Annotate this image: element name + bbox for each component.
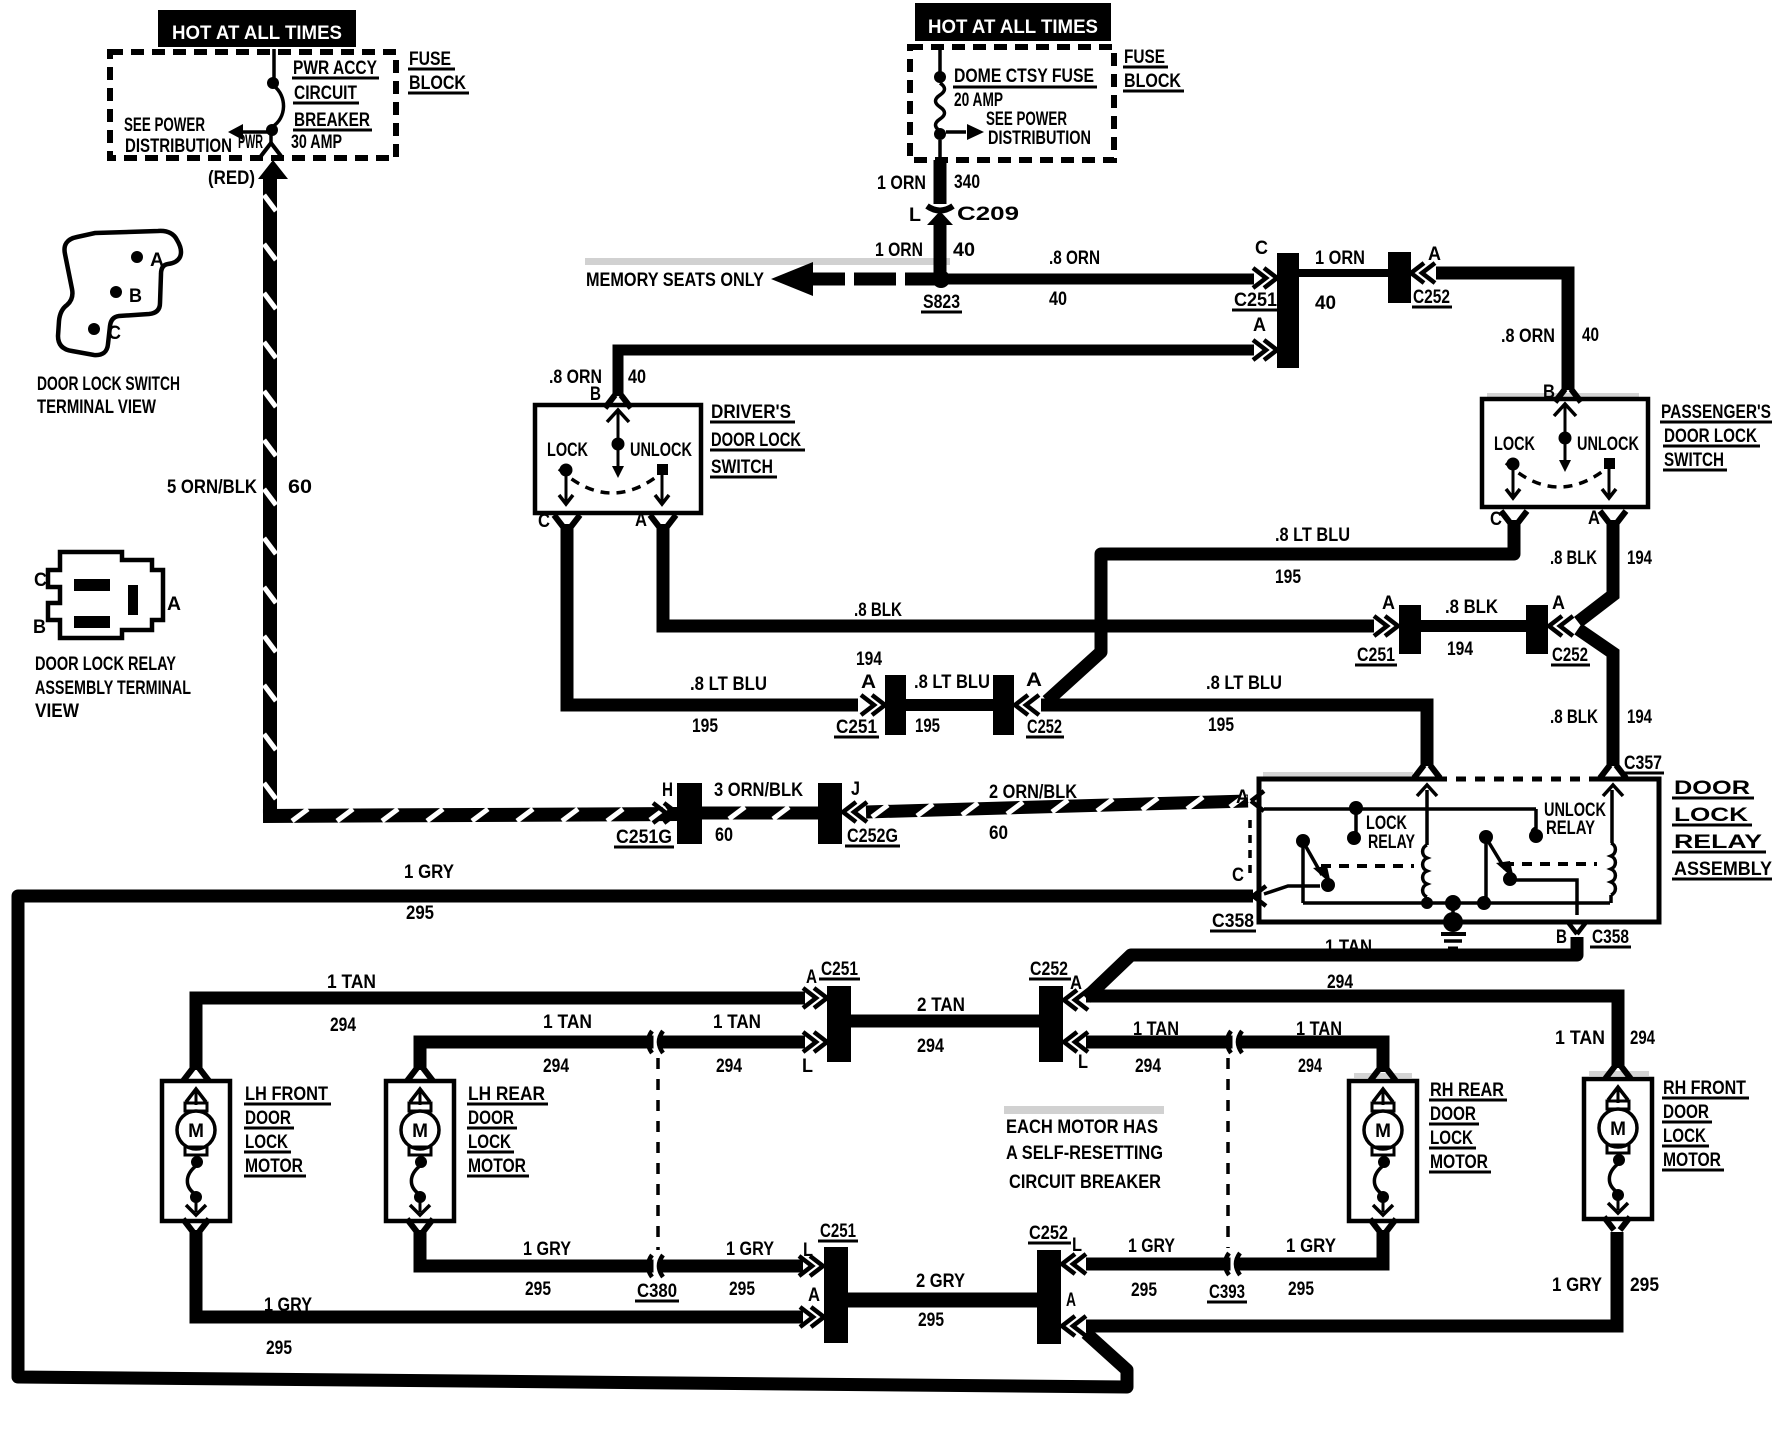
dashed line between RH connectors <box>1226 1058 1230 1248</box>
svg-text:30 AMP: 30 AMP <box>291 132 342 153</box>
svg-text:RELAY: RELAY <box>1546 818 1595 839</box>
dashed line relay A to C <box>1248 820 1252 880</box>
svg-text:SEE POWER: SEE POWER <box>986 109 1067 130</box>
svg-text:A: A <box>1552 593 1565 614</box>
svg-text:.8 BLK: .8 BLK <box>1550 548 1597 569</box>
unlock relay coil <box>1611 843 1615 895</box>
svg-text:1 TAN: 1 TAN <box>1325 937 1372 958</box>
svg-text:C251: C251 <box>1357 645 1395 666</box>
inner chevron below LT BLU terminal <box>1417 785 1437 796</box>
svg-text:RELAY: RELAY <box>1368 832 1415 853</box>
hatch slashes on 2 ORN/BLK <box>872 795 1246 817</box>
wire to SEE POWER arrow <box>242 130 271 134</box>
driver's door lock switch U-switch <box>535 405 701 513</box>
arrow up at (RED) <box>258 160 288 179</box>
terminal flare C357 at relay top <box>1600 765 1626 778</box>
wire 1 GRY C252 A to RH front motor <box>1086 1232 1617 1326</box>
wire .8 LT BLU C251 to C252 <box>906 699 994 711</box>
header HOT AT ALL TIMES (middle) <box>915 3 1111 41</box>
svg-text:DOOR LOCK: DOOR LOCK <box>711 430 801 451</box>
svg-text:LOCK: LOCK <box>1663 1126 1706 1147</box>
connector C251G <box>677 783 702 844</box>
svg-text:.8 ORN: .8 ORN <box>1049 248 1100 269</box>
svg-text:.8 LT BLU: .8 LT BLU <box>1275 525 1350 546</box>
passenger's door lock switch U-switch <box>1482 399 1648 507</box>
LH front door lock motor <box>162 1081 230 1221</box>
terminal flare LH front motor top <box>183 1068 209 1081</box>
unlock relay common dot <box>1529 829 1543 843</box>
svg-text:294: 294 <box>330 1015 356 1036</box>
svg-text:.8 LT BLU: .8 LT BLU <box>690 674 767 695</box>
ground stub <box>1451 903 1455 913</box>
hatch slashes between C251G and C252G <box>729 807 789 819</box>
svg-text:C357: C357 <box>1624 753 1662 774</box>
svg-text:DISTRIBUTION: DISTRIBUTION <box>125 136 232 157</box>
unlock relay feed drop with hook <box>1532 809 1536 834</box>
svg-text:1 TAN: 1 TAN <box>1133 1019 1179 1040</box>
svg-text:RELAY: RELAY <box>1674 832 1762 853</box>
wire 5 ORN/BLK hatched vertical from (RED) <box>263 177 277 810</box>
svg-text:294: 294 <box>543 1056 569 1077</box>
connector C252 (TAN) <box>1039 986 1063 1062</box>
junction dot unlock post <box>1477 896 1491 910</box>
svg-text:MOTOR: MOTOR <box>245 1156 303 1177</box>
terminal arrow into C252 A (LT BLU) <box>1015 695 1039 715</box>
inner feed line C row <box>1264 886 1320 894</box>
terminal flare LH rear motor bottom <box>407 1219 433 1232</box>
svg-text:B: B <box>129 286 142 307</box>
dashed line between LH connectors <box>656 1058 660 1250</box>
arrow MEMORY SEATS ONLY <box>771 262 813 296</box>
wire .8 BLK passenger A down to C252 kink <box>1578 520 1613 622</box>
svg-text:295: 295 <box>729 1279 755 1300</box>
svg-text:RH REAR: RH REAR <box>1430 1080 1504 1101</box>
splice S823 <box>932 270 950 288</box>
svg-text:LOCK: LOCK <box>245 1132 288 1153</box>
svg-text:194: 194 <box>1627 707 1652 728</box>
wire .8 LT BLU passenger C down and left <box>1047 520 1514 701</box>
terminal arrow into C252 A (BLK) <box>1549 616 1573 636</box>
wire 1 GRY LH rear motor to C251 L <box>420 1230 803 1266</box>
svg-text:195: 195 <box>1275 567 1301 588</box>
svg-text:C251: C251 <box>820 1221 856 1242</box>
circuit breaker contact dot bottom <box>266 124 278 136</box>
terminal arrow into C251 A (GRY) <box>800 1307 824 1327</box>
svg-text:L: L <box>803 1240 813 1261</box>
connector C251 (BLK) <box>1399 605 1421 654</box>
svg-text:BLOCK: BLOCK <box>409 73 466 94</box>
svg-text:LOCK: LOCK <box>1674 805 1748 826</box>
terminal arrow into C252G J <box>843 802 867 822</box>
svg-text:C251G: C251G <box>616 827 672 848</box>
svg-text:DOOR: DOOR <box>245 1108 291 1129</box>
svg-text:ASSEMBLY TERMINAL: ASSEMBLY TERMINAL <box>35 678 191 699</box>
unlock contact line to B <box>1516 880 1577 915</box>
wire into fuse <box>938 44 942 73</box>
terminal arrow into C252 A <box>1411 263 1435 283</box>
svg-text:LH FRONT: LH FRONT <box>245 1084 328 1105</box>
inline connector on RH rear TAN <box>1227 1029 1242 1055</box>
svg-text:HOT AT ALL TIMES: HOT AT ALL TIMES <box>172 23 342 44</box>
svg-text:LOCK: LOCK <box>1430 1128 1473 1149</box>
svg-text:C251: C251 <box>1234 290 1277 311</box>
svg-text:J: J <box>851 779 860 800</box>
svg-text:C252: C252 <box>1552 645 1588 666</box>
noise band above relay box top left <box>1263 772 1413 777</box>
lock relay armature arm <box>1305 845 1322 875</box>
svg-text:C: C <box>108 323 121 344</box>
connector C209 upper flare <box>927 206 953 211</box>
svg-text:295: 295 <box>1131 1280 1157 1301</box>
terminal flare passenger A <box>1600 511 1626 524</box>
svg-text:C393: C393 <box>1209 1282 1245 1303</box>
svg-text:CIRCUIT: CIRCUIT <box>294 83 357 104</box>
terminal C dot (switch view) <box>88 323 100 335</box>
LH rear door lock motor <box>386 1081 454 1221</box>
lock relay pivot dot <box>1296 834 1310 848</box>
svg-text:1 ORN: 1 ORN <box>875 240 923 261</box>
svg-text:DOOR LOCK: DOOR LOCK <box>1664 426 1757 447</box>
noise band above RH rear motor box <box>1354 1073 1412 1078</box>
svg-text:C251: C251 <box>836 717 877 738</box>
lock relay mechanical link dashed <box>1321 864 1414 868</box>
svg-text:LOCK: LOCK <box>1366 813 1407 834</box>
svg-text:40: 40 <box>628 367 646 388</box>
fuse top dot <box>934 71 946 83</box>
terminal arrow into C252 A (GRY) <box>1062 1316 1086 1336</box>
circuit breaker curve <box>272 86 284 127</box>
relay view slot bottom <box>74 616 110 628</box>
svg-text:C251: C251 <box>821 959 858 980</box>
lock relay lower contact dot <box>1347 831 1361 845</box>
unlock relay mechanical link dashed <box>1504 862 1597 866</box>
RH rear door lock motor <box>1349 1081 1417 1221</box>
svg-text:A: A <box>1588 508 1600 529</box>
unlock relay pivot post <box>1484 841 1488 903</box>
svg-text:DOOR: DOOR <box>1674 778 1750 799</box>
dashed top edge segment <box>1447 776 1598 782</box>
unlock relay armature arrowhead <box>1496 861 1514 879</box>
svg-text:H: H <box>662 780 673 801</box>
svg-text:60: 60 <box>989 823 1008 844</box>
noise band above note <box>1004 1106 1164 1114</box>
wire .8 BLK C251 to C252 <box>1421 620 1527 632</box>
wire inside fuse block <box>272 49 276 80</box>
svg-text:LH REAR: LH REAR <box>468 1084 545 1105</box>
svg-text:DOME CTSY FUSE: DOME CTSY FUSE <box>954 66 1094 87</box>
unlock relay coil tail <box>1609 895 1613 903</box>
wire .8 LT BLU driver C to C251 <box>567 524 858 705</box>
svg-text:S823: S823 <box>923 292 960 313</box>
svg-text:1 GRY: 1 GRY <box>726 1239 774 1260</box>
svg-text:A: A <box>635 510 647 531</box>
wire .8 BLK C252 kink down to C357 <box>1578 629 1613 766</box>
noise band above RH front motor box <box>1589 1071 1649 1076</box>
svg-text:A: A <box>1236 787 1249 808</box>
unlock relay pivot dot <box>1479 830 1493 844</box>
svg-text:20 AMP: 20 AMP <box>954 90 1003 111</box>
svg-text:C: C <box>34 570 47 591</box>
svg-text:195: 195 <box>915 716 940 737</box>
relay view slot right <box>128 585 138 615</box>
hatch slashes on 3 ORN/BLK horizontal run <box>292 808 666 821</box>
terminal arrow at relay B <box>1567 921 1587 934</box>
svg-text:BLOCK: BLOCK <box>1124 71 1181 92</box>
door lock relay assembly box <box>1259 779 1659 922</box>
svg-text:1 GRY: 1 GRY <box>1552 1275 1602 1296</box>
svg-text:A: A <box>1382 593 1395 614</box>
header HOT AT ALL TIMES (left) <box>158 10 356 47</box>
lock relay coil tail <box>1425 897 1429 903</box>
lock relay common dot <box>1349 801 1363 815</box>
svg-text:.8 BLK: .8 BLK <box>854 600 902 621</box>
wire 1 ORN C251 to C252 <box>1299 269 1390 277</box>
svg-text:.8 LT BLU: .8 LT BLU <box>1206 673 1282 694</box>
terminal arrow into C251 L (TAN) <box>803 1032 827 1052</box>
svg-text:A: A <box>808 1285 820 1306</box>
svg-text:294: 294 <box>1135 1056 1161 1077</box>
svg-text:MEMORY SEATS ONLY: MEMORY SEATS ONLY <box>586 270 764 291</box>
arrow SEE POWER DISTRIBUTION <box>228 124 243 140</box>
unlock relay moving contact dot <box>1503 872 1517 886</box>
svg-text:195: 195 <box>692 716 718 737</box>
svg-text:PWR: PWR <box>238 132 263 153</box>
lock relay pivot post <box>1301 845 1305 903</box>
svg-text:DOOR: DOOR <box>1430 1104 1476 1125</box>
connector C251 (TAN) <box>827 986 851 1062</box>
svg-text:CIRCUIT BREAKER: CIRCUIT BREAKER <box>1009 1172 1161 1193</box>
terminal flare LH front motor bottom <box>183 1219 209 1232</box>
terminal flare LH rear motor top <box>407 1068 433 1081</box>
circuit breaker CB contact dot top <box>267 77 279 89</box>
svg-text:A: A <box>1428 244 1441 265</box>
svg-text:MOTOR: MOTOR <box>1663 1150 1721 1171</box>
svg-text:C380: C380 <box>637 1281 677 1302</box>
wire CB to exit <box>269 134 273 146</box>
terminal arrow into C251 L (GRY) <box>799 1256 823 1276</box>
wire .8 LT BLU junction to relay assembly <box>1041 705 1427 766</box>
hatch slashes on 5 ORN/BLK vertical <box>264 195 276 799</box>
svg-text:C358: C358 <box>1212 911 1254 932</box>
unlock relay armature arm <box>1488 841 1505 869</box>
inline connector C393 <box>1225 1251 1240 1277</box>
fuse DOME CTSY element squiggle <box>936 83 945 131</box>
svg-text:C252: C252 <box>1030 959 1068 980</box>
svg-text:DOOR: DOOR <box>1663 1102 1709 1123</box>
svg-text:40: 40 <box>1582 325 1599 346</box>
fuse block box (middle, dashed) <box>910 47 1114 160</box>
terminal arrow into C251 C <box>1253 268 1277 288</box>
svg-text:L: L <box>1078 1052 1088 1073</box>
svg-text:2 GRY: 2 GRY <box>916 1271 965 1292</box>
svg-text:ASSEMBLY: ASSEMBLY <box>1674 859 1772 880</box>
connector C251 (top) <box>1277 253 1299 368</box>
svg-text:HOT AT ALL TIMES: HOT AT ALL TIMES <box>928 17 1098 38</box>
inner feed line A row <box>1264 807 1536 811</box>
terminal arrow into C251 A (BLK) <box>1374 616 1398 636</box>
wire 2 TAN C251 to C252 <box>851 1015 1041 1028</box>
svg-text:PWR ACCY: PWR ACCY <box>293 58 377 79</box>
svg-text:L: L <box>909 205 921 226</box>
terminal arrow into C252 A (TAN) <box>1064 990 1088 1010</box>
ground bar 1 <box>1441 932 1466 936</box>
svg-text:A: A <box>150 250 164 271</box>
inline connector C380 <box>648 1253 663 1279</box>
svg-text:1 GRY: 1 GRY <box>523 1239 571 1260</box>
svg-text:.8 BLK: .8 BLK <box>1445 597 1498 618</box>
svg-text:295: 295 <box>1288 1279 1314 1300</box>
svg-text:C209: C209 <box>957 204 1019 225</box>
wire 2 ORN/BLK C252G to relay A <box>866 801 1248 812</box>
connector C252 (LT BLU) <box>993 675 1014 735</box>
svg-text:1 TAN: 1 TAN <box>713 1012 761 1033</box>
svg-text:FUSE: FUSE <box>1124 47 1165 68</box>
terminal flare RH rear motor top <box>1370 1068 1396 1081</box>
svg-text:A: A <box>1066 1290 1076 1311</box>
svg-text:B: B <box>33 617 46 638</box>
svg-text:DOOR LOCK SWITCH: DOOR LOCK SWITCH <box>37 374 180 395</box>
svg-text:60: 60 <box>715 825 733 846</box>
svg-text:MOTOR: MOTOR <box>468 1156 526 1177</box>
svg-text:SWITCH: SWITCH <box>1664 450 1724 471</box>
wire 1 TAN LH front motor to C251 A <box>196 998 805 1070</box>
svg-text:L: L <box>802 1056 813 1077</box>
svg-text:1 GRY: 1 GRY <box>404 862 454 883</box>
terminal arrow into C251G H <box>653 803 677 823</box>
lock relay coil feed <box>1425 790 1429 845</box>
svg-text:LOCK: LOCK <box>468 1132 511 1153</box>
svg-text:295: 295 <box>525 1279 551 1300</box>
svg-text:294: 294 <box>917 1036 944 1057</box>
wire dashed to MEMORY SEATS ONLY <box>812 273 947 286</box>
svg-text:VIEW: VIEW <box>35 701 79 722</box>
inner chevron below C357 terminal <box>1603 785 1623 796</box>
wire hatched corner and run to C251G <box>263 814 678 816</box>
lock relay contact stem <box>1354 812 1358 833</box>
wire 1 TAN relay B to C252 A <box>1086 937 1577 998</box>
svg-text:SEE POWER: SEE POWER <box>124 115 205 136</box>
wire 3 ORN/BLK C251G to C252G <box>702 807 818 820</box>
lock relay armature arrowhead <box>1313 866 1331 884</box>
svg-text:MOTOR: MOTOR <box>1430 1152 1488 1173</box>
svg-text:1 TAN: 1 TAN <box>1296 1019 1342 1040</box>
svg-text:EACH MOTOR HAS: EACH MOTOR HAS <box>1006 1117 1158 1138</box>
svg-text:C252: C252 <box>1029 1223 1068 1244</box>
svg-text:294: 294 <box>1298 1056 1322 1077</box>
svg-text:40: 40 <box>1315 293 1336 314</box>
connector C252 (top) <box>1388 252 1411 303</box>
bottom bus line <box>1303 901 1610 905</box>
svg-text:295: 295 <box>918 1310 944 1331</box>
svg-text:294: 294 <box>1630 1028 1655 1049</box>
svg-text:DOOR LOCK RELAY: DOOR LOCK RELAY <box>35 654 176 675</box>
terminal A dot (switch view) <box>131 251 143 263</box>
svg-text:C252G: C252G <box>847 826 898 847</box>
svg-text:40: 40 <box>1049 289 1067 310</box>
ground symbol dot <box>1443 912 1463 932</box>
door lock switch terminal view outline <box>58 231 181 355</box>
svg-text:194: 194 <box>1627 548 1652 569</box>
svg-text:FUSE: FUSE <box>409 49 451 70</box>
svg-text:195: 195 <box>1208 715 1234 736</box>
wire 1 GRY relay C big loop to C252 A <box>18 896 1253 1387</box>
svg-text:1 ORN: 1 ORN <box>1315 248 1365 269</box>
svg-text:DOOR: DOOR <box>468 1108 514 1129</box>
wire 1 GRY RH rear motor to C252 L <box>1086 1230 1383 1264</box>
connector C251 (LT BLU) <box>885 675 906 735</box>
exit chevron at fuse block bottom <box>261 143 281 156</box>
terminal flare at driver B <box>605 395 631 408</box>
svg-text:B: B <box>590 384 601 405</box>
svg-text:C: C <box>538 511 550 532</box>
arrow SEE POWER DISTRIBUTION (middle) <box>967 124 984 140</box>
wire 1 ORN 40 C209 to S823 <box>934 223 947 275</box>
terminal flare at passenger B <box>1555 389 1581 402</box>
connector C252G <box>818 783 842 844</box>
svg-text:295: 295 <box>266 1338 292 1359</box>
terminal flare RH rear motor bottom <box>1370 1219 1396 1232</box>
svg-text:1 GRY: 1 GRY <box>264 1295 312 1316</box>
svg-text:TERMINAL VIEW: TERMINAL VIEW <box>37 397 156 418</box>
door lock relay assembly terminal view outline <box>48 552 163 638</box>
wire to distribution arrow <box>946 130 966 134</box>
svg-text:2 TAN: 2 TAN <box>917 995 965 1016</box>
svg-text:1 TAN: 1 TAN <box>1555 1028 1605 1049</box>
terminal B dot (switch view) <box>110 286 122 298</box>
svg-text:.8 ORN: .8 ORN <box>1501 326 1555 347</box>
svg-text:(RED): (RED) <box>208 168 255 189</box>
connector C251 (GRY) <box>824 1247 848 1343</box>
terminal arrow into C251 A (TAN) <box>803 988 827 1008</box>
terminal arrow at relay A <box>1251 791 1264 811</box>
svg-text:SWITCH: SWITCH <box>711 457 773 478</box>
svg-text:A: A <box>861 672 876 693</box>
svg-text:B: B <box>1556 927 1567 948</box>
terminal flare LT BLU at relay top <box>1414 765 1440 778</box>
svg-text:C: C <box>1255 238 1268 259</box>
svg-text:40: 40 <box>953 240 975 261</box>
svg-text:C: C <box>1232 865 1244 886</box>
svg-text:.8 BLK: .8 BLK <box>1550 707 1598 728</box>
svg-text:BREAKER: BREAKER <box>294 110 370 131</box>
relay view slot top <box>74 579 110 591</box>
lock relay coil <box>1423 845 1427 897</box>
svg-text:1 ORN: 1 ORN <box>877 173 926 194</box>
svg-text:194: 194 <box>856 649 882 670</box>
wire 1 TAN C252 L to RH rear motor <box>1086 1042 1383 1072</box>
svg-text:A: A <box>806 967 817 988</box>
fuse block box (left, dashed) <box>110 52 396 158</box>
svg-text:1 GRY: 1 GRY <box>1128 1236 1175 1257</box>
wire .8 ORN 40 driver feed from C251 A <box>618 350 1254 396</box>
terminal flare RH front motor bottom <box>1604 1217 1630 1230</box>
terminal flare RH front motor top <box>1605 1066 1631 1079</box>
terminal flare driver A <box>650 515 676 528</box>
ground bar 3 <box>1448 947 1458 950</box>
connector C252 (GRY) <box>1037 1250 1061 1344</box>
connector C209 lower arrow <box>927 211 953 225</box>
svg-text:295: 295 <box>406 903 434 924</box>
lock relay moving contact dot <box>1321 878 1335 892</box>
svg-text:60: 60 <box>288 477 312 498</box>
terminal arrow into C251 A (LT BLU) <box>861 695 885 715</box>
wire 1 TAN C252 A to RH front motor <box>1086 996 1618 1068</box>
svg-text:1 TAN: 1 TAN <box>543 1012 592 1033</box>
svg-text:A SELF-RESETTING: A SELF-RESETTING <box>1006 1143 1163 1164</box>
svg-text:1 TAN: 1 TAN <box>327 972 376 993</box>
svg-text:295: 295 <box>1630 1275 1659 1296</box>
wire .8 ORN 40 to passenger switch B <box>1436 273 1568 390</box>
